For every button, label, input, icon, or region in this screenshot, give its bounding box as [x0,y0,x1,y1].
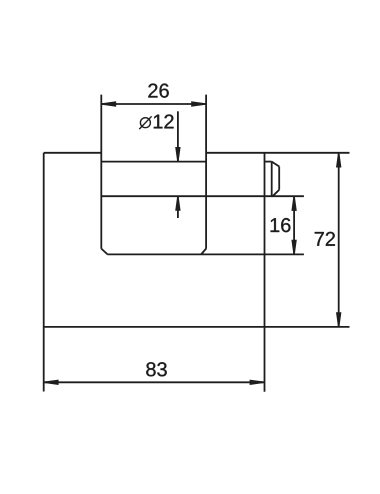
shackle bottom-right chamfer [201,249,206,255]
tab right edge [278,167,280,190]
arrow dim12 down [175,147,180,161]
dim 16 line [293,196,295,254]
body top edge left segment [44,152,102,154]
tab bottom-right chamfer [273,190,280,196]
arrow dim72 up [336,153,341,167]
shackle bottom edge with 16-dim extension [107,253,304,255]
body left edge with 83-dim extension [43,153,45,392]
dim 72 line [338,153,340,327]
dim 26 line [101,103,206,105]
label 83 [146,362,166,376]
shackle right leg [205,95,207,249]
dim 12 lower leader [177,196,179,218]
arrow dim16 up [291,197,296,211]
arrow dim26 left [102,101,116,106]
shackle hole lower line with 16-dim extension [101,195,304,197]
body top edge right segment with 72-dim extension [206,152,349,154]
label 72 [315,232,335,246]
arrow dim16 down [291,240,296,254]
body right edge with 83-dim extension [264,153,266,392]
diameter symbol circle [140,118,150,128]
label 16 [271,218,291,232]
shackle left leg [100,95,102,249]
body bottom edge with 72-dim extension [44,326,350,328]
diameter symbol slash [139,116,151,129]
arrow dim83 left [44,380,58,385]
arrow dim72 down [336,312,341,326]
tab top-right chamfer [272,162,280,167]
arrow dim26 right [191,101,205,106]
shackle hole upper line [101,161,206,163]
label 12 [154,114,174,128]
tab inner vertical edge [271,162,273,197]
dim 12 upper leader [177,111,179,161]
dim 83 line [44,381,265,383]
arrow dim12 up [175,197,180,211]
tab top edge [265,161,272,163]
arrow dim83 right [250,380,264,385]
shackle bottom-left chamfer [101,249,107,255]
label 26 [148,84,168,98]
